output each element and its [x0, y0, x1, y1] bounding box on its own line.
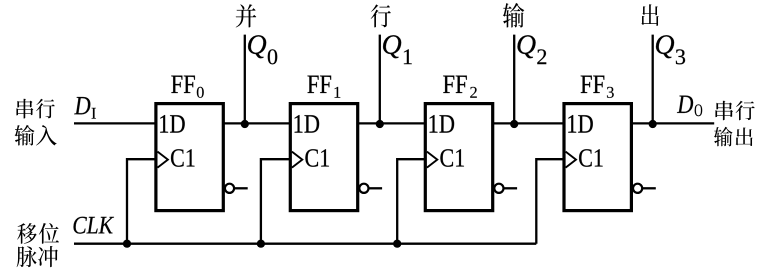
wire: FF3 inverted-output stub — [642, 187, 656, 189]
label 出 (serial-out row2) — [736, 127, 753, 146]
label FF2 subscript 2 — [470, 87, 477, 98]
label Q1 — [383, 35, 401, 58]
label char 输 (parallel-out 3/4) — [503, 3, 524, 28]
FF1 inverted-output bubble — [359, 184, 368, 193]
label Q0 — [248, 35, 266, 58]
label Q0 subscript 0 — [268, 49, 277, 64]
label 串 (serial-out row1) — [715, 101, 733, 121]
FF2 inverted-output bubble — [494, 184, 503, 193]
label char 并 (parallel-out 1/4) — [236, 4, 257, 27]
label char 出 (parallel-out 4/4) — [641, 4, 658, 26]
label Q3 — [656, 35, 674, 58]
FF1 clock chevron — [292, 152, 302, 168]
wire: FF0 inverted-output stub — [234, 187, 248, 189]
wire: FF1 inverted-output stub — [369, 187, 383, 189]
label 输 (serial-out row2) — [714, 127, 733, 147]
wire: Q1 output vertical — [379, 35, 381, 124]
label D_O (serial data out) — [677, 96, 693, 113]
label 脉 (shift-pulse row2) — [17, 246, 37, 267]
label FF3 — [581, 76, 592, 93]
label FF0 subscript 0 — [197, 87, 204, 98]
FF1 pin label C1 — [305, 149, 318, 167]
label char 行 (parallel-out 2/4) — [371, 4, 391, 27]
FF3 pin label C1 — [579, 149, 592, 167]
label Q2 subscript 2 — [537, 49, 546, 64]
wire: clock feed to FF3 pin C1 — [536, 159, 564, 244]
wire: clock feed to FF2 pin C1 — [397, 159, 425, 244]
label D_I (serial data in) — [74, 97, 90, 114]
wire: FF2 inverted-output stub — [504, 187, 518, 189]
FF2 pin label 1D — [430, 115, 438, 133]
FF0 inverted-output bubble — [225, 184, 234, 193]
flip-flop FF0 body — [156, 104, 223, 211]
label 入 (serial-in row2) — [36, 125, 57, 146]
wire: Q2 output vertical — [513, 35, 515, 124]
wire: Q0 output vertical — [244, 35, 246, 124]
label 位 (shift-pulse row1) — [39, 223, 59, 244]
FF3 clock chevron — [566, 152, 576, 168]
label FF1 — [307, 76, 318, 93]
label FF3 subscript 3 — [607, 87, 614, 98]
FF2 clock chevron — [427, 152, 437, 168]
FF0 pin label C1 — [171, 149, 184, 167]
FF3 inverted-output bubble — [633, 184, 642, 193]
label FF2 — [443, 76, 454, 93]
label 移 (shift-pulse row1) — [17, 223, 37, 244]
flip-flop FF3 body — [564, 104, 631, 211]
FF2 pin label C1 — [440, 149, 453, 167]
label 行 (serial-out row1) — [736, 101, 755, 120]
label FF1 subscript 1 — [335, 87, 341, 98]
label 串 (serial-in row1) — [16, 99, 33, 119]
label CLK — [74, 217, 87, 234]
flip-flop FF1 body — [290, 104, 357, 211]
label D_O subscript O — [695, 104, 703, 116]
junction: node Q2 on data bus — [510, 120, 518, 128]
FF0 clock chevron — [158, 152, 168, 168]
wire: serial data bus D_I through flip-flop D/Q chain — [74, 122, 714, 124]
junction: CLK bus to FF0 clock feed — [123, 240, 131, 248]
label 冲 (shift-pulse row2) — [38, 246, 58, 267]
FF3 pin label 1D — [568, 115, 576, 133]
label D_I subscript I — [92, 108, 96, 119]
label Q1 subscript 1 — [404, 49, 412, 64]
junction: node Q3 on data bus — [649, 120, 657, 128]
wire: clock feed to FF1 pin C1 — [261, 159, 290, 244]
junction: CLK bus to FF1 clock feed — [257, 240, 265, 248]
label FF0 — [171, 76, 182, 93]
wire: CLK bus — [74, 243, 536, 245]
label 行 (serial-in row1) — [36, 99, 55, 119]
junction: node Q0 on data bus — [241, 120, 249, 128]
FF1 pin label 1D — [295, 115, 303, 133]
label Q2 — [517, 35, 535, 58]
wire: Q3 output vertical — [652, 35, 654, 124]
wire: clock feed to FF0 pin C1 — [127, 159, 156, 244]
FF0 pin label 1D — [160, 115, 168, 133]
junction: node Q1 on data bus — [376, 120, 384, 128]
flip-flop FF2 body — [425, 104, 492, 211]
junction: CLK bus to FF2 clock feed — [393, 240, 401, 248]
label 输 (serial-in row2) — [15, 125, 35, 146]
label Q3 subscript 3 — [676, 49, 685, 64]
